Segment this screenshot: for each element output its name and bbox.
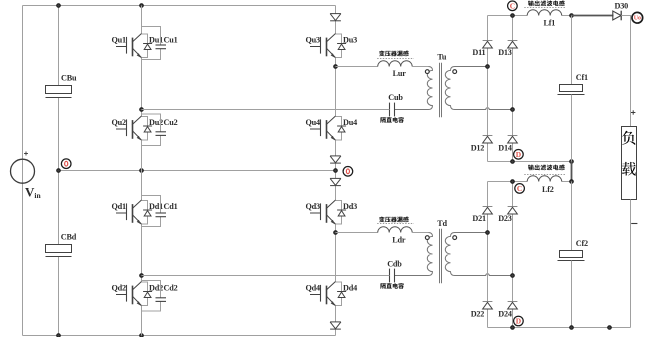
svg-text:D: D — [516, 317, 521, 326]
wire rect1 top rail — [488, 15, 528, 17]
node label 0 — [61, 159, 71, 169]
diode Du3 — [336, 34, 347, 58]
clamp diode below node 0 — [330, 178, 341, 185]
node bottom rail aux — [608, 326, 612, 330]
capacitor Cdb — [390, 269, 395, 283]
wire Vin column — [22, 6, 24, 336]
svg-text:Qd2: Qd2 — [112, 283, 127, 292]
wire rect2 bottom rail — [488, 327, 631, 329]
node Td secondary bottom at D23 — [511, 274, 515, 278]
capacitor CBd — [46, 245, 72, 257]
svg-text:Qu2: Qu2 — [112, 118, 127, 127]
diode Dd3 — [336, 201, 347, 225]
wire rect1 bottom rail — [488, 161, 572, 163]
node top rail / cap column — [57, 4, 61, 8]
node B leg1 midpoint lower — [140, 274, 144, 278]
polarity dot Td primary — [425, 236, 429, 240]
node D rect2 — [511, 326, 515, 330]
node leg2 midpoint upper — [334, 65, 338, 69]
inductor Lf2 — [527, 176, 562, 182]
svg-text:D22: D22 — [471, 310, 485, 319]
capacitor Cu2 — [142, 114, 167, 146]
clamp diode bottom — [330, 322, 341, 329]
diode Du4 — [336, 117, 347, 141]
svg-text:Qu3: Qu3 — [306, 35, 321, 44]
transformer Tu primary — [395, 67, 433, 110]
transistor Qd2 — [116, 282, 142, 306]
svg-text:Dd3: Dd3 — [343, 202, 357, 211]
wire Cdb to leg1 node — [142, 275, 390, 277]
svg-text:Qd3: Qd3 — [306, 202, 321, 211]
svg-text:D21: D21 — [472, 214, 486, 223]
svg-text:Qd4: Qd4 — [306, 283, 321, 292]
svg-text:Qu1: Qu1 — [112, 35, 127, 44]
label output filter inductor 1 — [528, 0, 565, 6]
wire thick rect1 to Lf2 node — [571, 162, 573, 182]
svg-text:Cf1: Cf1 — [576, 73, 588, 82]
wire Lur to Tu — [412, 66, 428, 68]
svg-text:D11: D11 — [472, 48, 485, 57]
svg-text:Tu: Tu — [437, 52, 447, 61]
svg-text:D12: D12 — [471, 144, 485, 153]
transistor Qd1 — [116, 200, 142, 224]
capacitor Cd2 — [142, 281, 167, 312]
wire Cub to leg1 node — [142, 109, 390, 111]
label minus — [631, 223, 637, 225]
inductor Ldr — [378, 227, 413, 233]
node label C rect1 — [508, 1, 518, 11]
node A leg1 midpoint upper — [140, 108, 144, 112]
diode Du2 — [142, 117, 153, 141]
node Td secondary top at D21 — [486, 231, 490, 235]
transistor Qu4 — [310, 116, 336, 140]
svg-text:Uo: Uo — [634, 16, 641, 22]
svg-text:Cu2: Cu2 — [164, 118, 178, 127]
svg-text:D23: D23 — [498, 214, 512, 223]
node Cf2 bottom — [570, 326, 574, 330]
transformer Td primary — [395, 233, 433, 276]
transformer Td secondary — [445, 233, 512, 276]
wire leg1 column — [141, 6, 143, 336]
svg-text:Ldr: Ldr — [392, 235, 406, 244]
diode D14 — [508, 136, 518, 144]
diode Du1 — [142, 34, 153, 58]
clamp diode top — [330, 14, 341, 21]
node C rect1 — [511, 14, 515, 18]
node Tu secondary top at D11 — [486, 65, 490, 69]
wire D30 to output corner — [621, 16, 630, 127]
diode D13 — [508, 41, 518, 49]
svg-text:D30: D30 — [615, 2, 629, 11]
node label D rect2 — [514, 316, 524, 326]
wire rect1 colB — [512, 16, 514, 162]
wire rect2 colB — [512, 182, 514, 328]
polarity dot Tu primary — [425, 70, 429, 74]
svg-text:D14: D14 — [498, 144, 512, 153]
diode Dd1 — [142, 201, 153, 225]
wire mid rail — [59, 170, 336, 172]
diode D21 — [483, 207, 493, 215]
svg-text:D13: D13 — [498, 48, 512, 57]
transistor Qu3 — [310, 34, 336, 58]
transistor Qu2 — [116, 116, 142, 140]
diode D22 — [483, 302, 493, 310]
svg-text:Lf1: Lf1 — [544, 19, 556, 28]
inductor Lf1 — [527, 10, 562, 16]
node bottom rail / leg1 — [140, 334, 144, 338]
capacitor CBu — [46, 86, 72, 98]
wire Cf2 to rail — [571, 261, 573, 328]
svg-text:Lur: Lur — [393, 69, 407, 78]
svg-text:Dd4: Dd4 — [343, 283, 357, 292]
node bottom rail / cap column — [57, 334, 61, 338]
node Cf1 bottom — [570, 160, 574, 164]
capacitor Cu1 — [142, 27, 167, 60]
wire leg2 column — [335, 6, 337, 336]
svg-text:CBu: CBu — [61, 73, 77, 82]
svg-text:Du3: Du3 — [343, 35, 357, 44]
svg-text:D24: D24 — [498, 310, 512, 319]
label plus — [631, 110, 635, 114]
node D rect1 — [511, 160, 515, 164]
wire Cf1 to rail — [571, 95, 573, 162]
node label 0 leg2 — [343, 167, 353, 177]
wire load bottom — [630, 200, 632, 328]
node Lf1 output — [570, 14, 574, 18]
load box — [622, 127, 637, 200]
capacitor Cd1 — [142, 196, 167, 227]
polarity dot Tu secondary — [453, 70, 457, 74]
label DC blocking cap upper — [380, 117, 403, 123]
load text — [622, 131, 635, 145]
transformer Td core — [439, 229, 441, 283]
wire rect2 top rail — [488, 181, 528, 183]
transistor Qu1 — [116, 34, 142, 58]
svg-text:Cub: Cub — [388, 93, 403, 102]
svg-text:Qu4: Qu4 — [306, 118, 321, 127]
transistor Qd3 — [310, 200, 336, 224]
wire thick Lf1 to D30 — [572, 15, 614, 17]
transformer Tu secondary — [445, 67, 512, 110]
svg-text:Td: Td — [437, 219, 447, 228]
diode D30 — [613, 11, 621, 21]
svg-text:Cd2: Cd2 — [164, 283, 178, 292]
wire bottom rail — [23, 335, 336, 337]
node top rail / leg1 — [140, 4, 144, 8]
svg-text:C: C — [517, 184, 522, 193]
node 0 leg2 — [334, 169, 338, 173]
diode D11 — [483, 41, 493, 49]
label DC blocking cap lower — [380, 283, 403, 289]
svg-text:Du4: Du4 — [343, 118, 357, 127]
diode Dd4 — [336, 282, 347, 306]
diode D23 — [508, 207, 518, 215]
svg-text:C: C — [510, 1, 515, 10]
svg-text:CBd: CBd — [61, 232, 77, 241]
node C rect2 — [511, 180, 515, 184]
polarity dot Td secondary — [453, 236, 457, 240]
capacitor Cf1 — [571, 16, 573, 85]
wire top rail — [23, 5, 336, 7]
node label Uo — [632, 12, 643, 23]
svg-text:Cdb: Cdb — [387, 259, 402, 268]
source Vin — [11, 152, 35, 184]
capacitor Cub — [390, 103, 395, 117]
wire node to Ldr — [336, 232, 378, 234]
wire node to Lur — [336, 66, 378, 68]
wire rect1 colA — [487, 16, 489, 162]
node Tu secondary bottom at D13 — [511, 108, 515, 112]
transistor Qd4 — [310, 282, 336, 306]
svg-text:Qd1: Qd1 — [112, 202, 127, 211]
node mid rail / leg1 — [140, 169, 144, 173]
svg-text:Lf2: Lf2 — [542, 185, 554, 194]
wire cap column — [58, 6, 60, 336]
label output filter inductor 2 — [528, 165, 565, 171]
diode Dd2 — [142, 282, 153, 306]
svg-text:Cf2: Cf2 — [576, 239, 588, 248]
node Lf2 output — [570, 180, 574, 184]
svg-text:Cu1: Cu1 — [164, 35, 178, 44]
node 0 mid rail — [57, 169, 61, 173]
node label D rect1 — [514, 150, 524, 160]
node label C rect2 — [515, 184, 525, 194]
diode D12 — [483, 136, 493, 144]
label transformer leakage upper — [379, 51, 409, 57]
inductor Lur — [378, 61, 413, 67]
diode D24 — [508, 302, 518, 310]
clamp diode above node 0 — [330, 156, 341, 163]
label transformer leakage lower — [379, 217, 409, 223]
svg-text:D: D — [516, 150, 521, 159]
node leg2 midpoint lower — [334, 231, 338, 235]
svg-text:Cd1: Cd1 — [164, 202, 178, 211]
wire Ldr to Td — [412, 232, 428, 234]
capacitor Cf2 — [571, 182, 573, 251]
transformer Tu core — [439, 63, 441, 118]
wire rect2 colA — [487, 182, 489, 328]
